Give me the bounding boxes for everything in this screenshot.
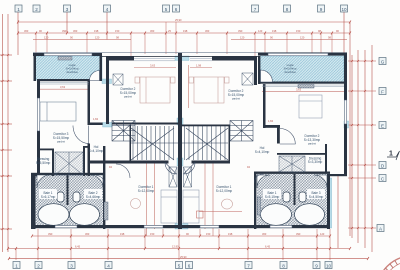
svg-text:S=5,50mp: S=5,50mp xyxy=(36,161,51,165)
svg-text:10: 10 xyxy=(326,263,332,268)
dorm1 left wall xyxy=(103,146,105,229)
svg-text:S=6,17mp: S=6,17mp xyxy=(41,195,56,199)
svg-text:S=15,00mp: S=15,00mp xyxy=(120,91,137,95)
svg-text:1: 1 xyxy=(389,151,393,158)
svg-text:120: 120 xyxy=(95,36,100,40)
svg-text:S=12,00mp: S=12,00mp xyxy=(138,189,155,193)
svg-text:S=4,10mp: S=4,10mp xyxy=(255,150,270,154)
svg-text:deschisa: deschisa xyxy=(284,70,295,74)
svg-text:363: 363 xyxy=(262,232,267,236)
svg-text:E: E xyxy=(381,123,384,128)
interior red furniture marks right dorm1 xyxy=(131,199,243,219)
svg-text:198: 198 xyxy=(272,29,277,33)
top overhang line xyxy=(33,51,347,54)
left wall xyxy=(37,79,40,176)
svg-text:2: 2 xyxy=(35,7,38,12)
left unit main flight treads xyxy=(133,126,174,160)
svg-text:3,63: 3,63 xyxy=(296,88,302,92)
right unit winders xyxy=(230,121,253,142)
svg-text:S=13,30mp: S=13,30mp xyxy=(304,138,321,142)
bottom chains xyxy=(32,235,330,237)
right wall xyxy=(344,53,347,176)
svg-text:12,90: 12,90 xyxy=(172,245,179,249)
svg-text:3,63: 3,63 xyxy=(60,85,66,89)
svg-text:8: 8 xyxy=(282,263,285,268)
L-wall left unit xyxy=(106,56,134,61)
svg-text:150: 150 xyxy=(206,232,211,236)
svg-text:S=4,50mp: S=4,50mp xyxy=(309,195,324,199)
svg-text:parchet: parchet xyxy=(57,141,65,144)
svg-text:7: 7 xyxy=(247,263,250,268)
bath door left xyxy=(96,176,105,185)
svg-text:25,90: 25,90 xyxy=(175,18,182,22)
svg-text:150: 150 xyxy=(296,29,301,33)
left unit winders xyxy=(112,121,135,142)
svg-text:2: 2 xyxy=(37,263,40,268)
svg-text:S=12,00mp: S=12,00mp xyxy=(216,189,233,193)
wardrobe X boxes right xyxy=(279,156,305,172)
svg-text:123: 123 xyxy=(320,232,325,236)
bed dorm1 bottom-left xyxy=(161,190,177,223)
right mid dorm door xyxy=(280,129,296,145)
svg-text:198: 198 xyxy=(228,232,233,236)
party wall xyxy=(178,53,182,229)
svg-text:150: 150 xyxy=(150,232,155,236)
svg-text:363: 363 xyxy=(150,29,155,33)
section marker 1 xyxy=(387,151,400,161)
svg-text:150: 150 xyxy=(115,29,120,33)
wardrobe X boxes left xyxy=(55,152,83,175)
right vertical chains xyxy=(351,55,353,238)
left vertical chains xyxy=(2,14,4,252)
bed dorm1 bottom-right xyxy=(183,190,199,223)
svg-text:3: 3 xyxy=(66,7,69,12)
top exterior wall over logias xyxy=(33,53,102,56)
bath divider right unit xyxy=(294,174,296,205)
svg-text:390: 390 xyxy=(296,232,301,236)
svg-text:7: 7 xyxy=(254,7,257,12)
svg-text:363: 363 xyxy=(24,29,29,33)
radiators xyxy=(58,57,314,221)
dressing right walls xyxy=(277,153,327,155)
D3 right wall (corridor) xyxy=(88,81,91,125)
center facade thin top line xyxy=(102,55,258,58)
svg-text:3: 3 xyxy=(70,263,73,268)
svg-text:6: 6 xyxy=(175,7,178,12)
svg-text:9: 9 xyxy=(320,7,323,12)
svg-text:S=4,10mp: S=4,10mp xyxy=(89,149,104,153)
svg-text:1,84: 1,84 xyxy=(268,119,274,123)
sill lines xyxy=(40,58,344,86)
svg-text:9: 9 xyxy=(315,263,318,268)
svg-text:1: 1 xyxy=(15,263,18,268)
svg-text:1,98: 1,98 xyxy=(196,64,202,68)
label clearings xyxy=(39,189,325,199)
svg-text:120: 120 xyxy=(300,36,305,40)
svg-text:parchet: parchet xyxy=(124,96,132,99)
svg-text:G: G xyxy=(381,59,385,64)
svg-text:S=15,50mp: S=15,50mp xyxy=(53,136,70,140)
svg-text:parchet: parchet xyxy=(232,98,240,101)
svg-text:363: 363 xyxy=(73,29,78,33)
bath door right xyxy=(255,174,264,183)
svg-text:S=15,00mp: S=15,00mp xyxy=(228,93,245,97)
svg-text:4: 4 xyxy=(107,263,110,268)
bed dorm2 right xyxy=(189,77,229,103)
logia right bottom wall xyxy=(258,82,346,84)
dorm1 bottom doors at stair wall xyxy=(116,164,130,178)
right unit main flight treads xyxy=(185,126,226,160)
svg-text:5: 5 xyxy=(165,7,168,12)
svg-text:6: 6 xyxy=(188,263,191,268)
svg-text:363: 363 xyxy=(205,29,210,33)
svg-text:8: 8 xyxy=(286,7,289,12)
svg-text:6,45: 6,45 xyxy=(75,245,81,249)
logia right door xyxy=(261,70,273,82)
right unit interior xyxy=(181,125,230,127)
svg-text:198: 198 xyxy=(120,232,125,236)
svg-text:parchet: parchet xyxy=(308,143,316,146)
bath top wall right xyxy=(254,172,330,174)
svg-text:1: 1 xyxy=(17,7,20,12)
svg-text:123: 123 xyxy=(258,29,263,33)
svg-text:S=5,15mp: S=5,15mp xyxy=(265,195,280,199)
svg-text:3,63: 3,63 xyxy=(150,64,156,68)
svg-text:5: 5 xyxy=(178,263,181,268)
L-wall right unit xyxy=(212,56,257,61)
svg-text:390: 390 xyxy=(48,232,53,236)
shafts with X top xyxy=(113,74,123,85)
svg-text:6,45: 6,45 xyxy=(265,245,271,249)
svg-text:120: 120 xyxy=(44,36,49,40)
logia left bottom window wall xyxy=(37,79,90,81)
svg-text:S=4,66mp: S=4,66mp xyxy=(86,195,101,199)
svg-text:1,84: 1,84 xyxy=(93,117,99,121)
logia left edge xyxy=(34,53,37,81)
bottom wall xyxy=(31,225,330,228)
svg-text:390: 390 xyxy=(62,29,67,33)
stair bottom left xyxy=(88,161,169,164)
ducts near party wall bottom xyxy=(169,167,177,187)
bed dorm2 left xyxy=(135,77,175,103)
blue wall patches xyxy=(102,56,349,229)
bath divider left unit xyxy=(67,175,69,205)
wardrobe areas xyxy=(55,152,83,175)
bath top wall left xyxy=(31,173,105,175)
hol door bottom left unit xyxy=(165,163,177,175)
bed dorm3 left (faint) xyxy=(40,102,76,121)
corridor bottom wall left unit xyxy=(88,123,103,126)
svg-text:198: 198 xyxy=(94,29,99,33)
svg-text:10: 10 xyxy=(341,7,347,12)
dressing walls left xyxy=(37,149,54,151)
svg-text:deschisa: deschisa xyxy=(66,70,77,74)
svg-text:363: 363 xyxy=(85,232,90,236)
svg-text:4: 4 xyxy=(106,7,109,12)
dorm3 door xyxy=(73,126,89,144)
svg-text:198: 198 xyxy=(183,29,188,33)
logia left door xyxy=(90,71,100,81)
bath fixtures xyxy=(38,192,325,225)
svg-text:390: 390 xyxy=(238,29,243,33)
svg-text:25,90: 25,90 xyxy=(180,255,187,259)
svg-text:S=3,30mp: S=3,30mp xyxy=(308,160,323,164)
bed right mid dorm xyxy=(299,95,322,118)
svg-text:F: F xyxy=(381,89,384,94)
svg-text:120: 120 xyxy=(240,36,245,40)
hol door bottom right unit xyxy=(184,163,196,175)
